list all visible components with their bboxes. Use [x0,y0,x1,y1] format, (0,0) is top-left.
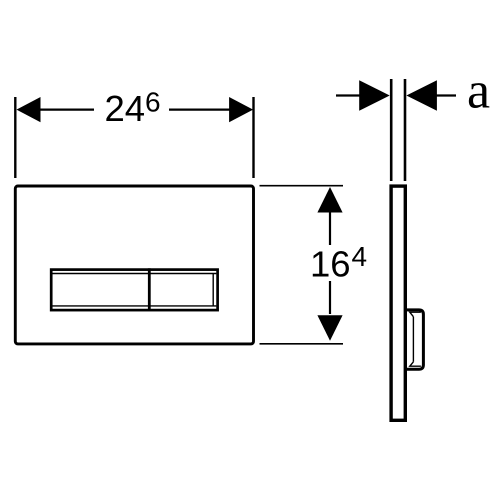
height dim arrow up [317,187,342,213]
width dim arrow right [229,97,253,122]
thickness dim extension line left [390,79,393,181]
svg-text:a: a [467,63,490,120]
width dim line right segment [169,108,231,110]
svg-text:24: 24 [105,88,146,129]
side view button face top edge [410,312,421,317]
button bevel line right [212,274,214,306]
button bevel line bottom [52,305,216,307]
height dim extension line top [260,185,344,187]
thickness dim tail right [435,94,456,96]
side view button face bottom edge [410,362,421,366]
side view button protrusion [405,310,423,369]
height dim line bottom segment [329,281,331,314]
svg-text:6: 6 [145,87,161,118]
button divider [148,268,151,310]
height dim arrow down [317,315,342,341]
svg-text:16: 16 [310,244,351,285]
button group outer frame [51,270,217,311]
side view button face front edge [412,317,414,362]
thickness dim extension line right [404,79,407,181]
width dim extension line right [252,97,254,178]
width dim arrow left [17,97,41,122]
thickness dim arrow right [406,80,437,111]
width dim line left segment [38,108,94,110]
thickness dim arrow left [359,80,390,111]
thickness dim tail left [336,94,362,96]
svg-text:4: 4 [352,241,368,272]
button bevel line top [52,273,216,275]
side view body [391,186,405,420]
plate front view outline [15,186,253,344]
height dim extension line bottom [260,343,344,345]
height dim line top segment [329,210,331,245]
width dim extension line left [14,97,16,178]
